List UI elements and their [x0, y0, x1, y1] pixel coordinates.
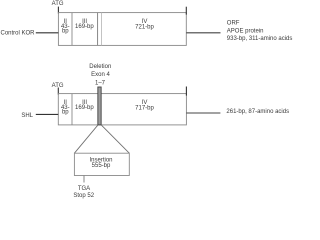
wire ATG tick (SHL): [57, 88, 59, 95]
wire box to 261-bp label (SHL): [186, 112, 220, 114]
wire right end tick (SHL): [185, 87, 187, 96]
svg-text:169-bp: 169-bp: [75, 105, 94, 111]
svg-text:ATG: ATG: [52, 1, 64, 7]
wire ATG tick (control): [57, 7, 59, 14]
wire insertion flare left: [74, 125, 98, 153]
wire TGA tick: [83, 176, 85, 183]
svg-text:555-bp: 555-bp: [92, 163, 111, 169]
divider exon II/III (control): [71, 13, 73, 46]
svg-text:717-bp: 717-bp: [135, 105, 154, 111]
svg-text:261-bp, 87-amino acids: 261-bp, 87-amino acids: [226, 109, 289, 115]
svg-text:ORF: ORF: [227, 21, 240, 27]
svg-text:Exon 4: Exon 4: [91, 72, 110, 78]
svg-text:721-bp: 721-bp: [135, 24, 154, 30]
svg-text:APOE protein: APOE protein: [227, 28, 264, 34]
svg-text:169-bp: 169-bp: [75, 24, 94, 30]
svg-text:Stop 52: Stop 52: [73, 193, 94, 199]
divider exon III/exon4(1-7) (control): [97, 13, 99, 46]
exon row box (SHL): [58, 94, 186, 125]
svg-text:bp: bp: [62, 110, 69, 116]
svg-text:TGA: TGA: [78, 186, 90, 192]
wire box to ORF label (control): [186, 32, 220, 34]
svg-text:SHL: SHL: [21, 113, 33, 119]
divider exon II/III (SHL): [71, 94, 73, 125]
svg-text:bp: bp: [62, 29, 69, 35]
svg-text:933-bp, 311-amino acids: 933-bp, 311-amino acids: [227, 36, 293, 42]
insertion box 555-bp: [74, 153, 129, 175]
wire Control KOR to box: [36, 32, 59, 34]
deletion band exon4 1-7 (SHL): [98, 87, 101, 125]
wire right end tick (control): [185, 7, 187, 15]
divider exon4(1-7)/IV (control): [101, 13, 103, 46]
svg-text:Deletion: Deletion: [89, 64, 111, 70]
svg-text:1–7: 1–7: [95, 80, 106, 86]
svg-text:Control KOR: Control KOR: [1, 30, 36, 36]
wire SHL to box: [36, 113, 59, 115]
wire insertion flare right: [101, 125, 129, 153]
exon row box (control): [58, 13, 186, 46]
